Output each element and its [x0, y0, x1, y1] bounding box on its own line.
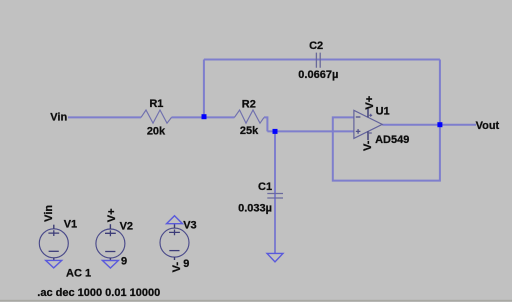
- svg-text:AC 1: AC 1: [66, 267, 91, 279]
- resistor R1 zigzag: [141, 110, 172, 123]
- svg-text:9: 9: [183, 258, 189, 270]
- op-amp V- power stub: [367, 131, 369, 140]
- svg-text:.ac dec 1000 0.01 10000: .ac dec 1000 0.01 10000: [37, 287, 160, 299]
- svg-text:V2: V2: [120, 220, 133, 232]
- V3 minus mark: [169, 250, 179, 252]
- V2 top stub: [109, 224, 111, 229]
- voltage source V3 body: [160, 228, 189, 257]
- svg-text:Vin: Vin: [50, 111, 67, 123]
- op-amp V+ power mark: [369, 114, 372, 117]
- svg-text:Vout: Vout: [476, 120, 500, 132]
- wire feedback loop: [333, 117, 440, 180]
- V1 plus mark: [48, 230, 59, 236]
- svg-text:9: 9: [121, 256, 127, 268]
- op-amp V- power mark: [369, 132, 372, 134]
- V1 minus mark: [49, 250, 59, 252]
- V3 plus mark: [169, 230, 180, 236]
- resistor R2 zigzag: [234, 110, 264, 123]
- svg-text:0.0667µ: 0.0667µ: [298, 69, 338, 81]
- wire C1 vertical: [274, 131, 276, 253]
- svg-text:R1: R1: [149, 98, 163, 110]
- ground below C1: [267, 253, 283, 261]
- V3 bottom stub: [174, 257, 176, 260]
- svg-text:V+: V+: [106, 208, 118, 222]
- capacitor C2 plates: [316, 53, 320, 68]
- svg-text:C1: C1: [258, 181, 272, 193]
- svg-text:V1: V1: [64, 219, 77, 231]
- svg-text:C2: C2: [309, 40, 323, 52]
- V2 bottom stub: [109, 258, 111, 261]
- svg-text:AD549: AD549: [375, 134, 409, 146]
- wire lower net to op-amp + input: [267, 130, 354, 132]
- svg-text:V-: V-: [362, 140, 374, 151]
- op-amp inverting input mark: [356, 116, 361, 118]
- ground below V2: [102, 261, 118, 269]
- svg-text:Vin: Vin: [43, 205, 55, 222]
- voltage source V1 body: [39, 229, 68, 258]
- capacitor C1 plates: [267, 194, 283, 199]
- svg-text:20k: 20k: [147, 126, 166, 138]
- ground above V3 (inverted): [167, 216, 183, 224]
- wire C2 right vertical: [439, 60, 441, 125]
- ground below V1: [46, 260, 62, 268]
- wire R2 right lead and corner down: [264, 117, 267, 131]
- V1 bottom stub: [53, 258, 55, 261]
- voltage source V2 body: [96, 229, 125, 258]
- svg-text:V-: V-: [171, 262, 183, 273]
- V2 minus mark: [105, 251, 115, 253]
- svg-text:V3: V3: [183, 220, 196, 232]
- wire C2 left vertical: [203, 60, 205, 118]
- V2 plus mark: [105, 230, 116, 236]
- svg-text:U1: U1: [376, 105, 390, 117]
- node B junction (R2/C1/op-amp): [273, 129, 278, 134]
- svg-text:R2: R2: [242, 99, 256, 111]
- V1 top stub: [53, 225, 55, 229]
- svg-text:0.033µ: 0.033µ: [238, 203, 272, 215]
- svg-text:V+: V+: [364, 96, 376, 110]
- node Vout junction: [437, 122, 442, 127]
- op-amp non-inverting input mark: [356, 129, 361, 134]
- V3 top stub: [174, 224, 176, 228]
- wire R1 to R2 through node A: [172, 116, 235, 118]
- node A junction (R1/R2/C2): [202, 114, 207, 119]
- svg-text:25k: 25k: [240, 125, 259, 137]
- wire C2 top horizontal: [204, 59, 440, 61]
- wire op-amp output to Vout: [382, 124, 476, 126]
- op-amp U1 triangle: [354, 110, 382, 138]
- wire Vin to R1: [68, 116, 141, 118]
- bottom window border: [0, 300, 512, 302]
- op-amp V+ power stub: [367, 108, 369, 117]
